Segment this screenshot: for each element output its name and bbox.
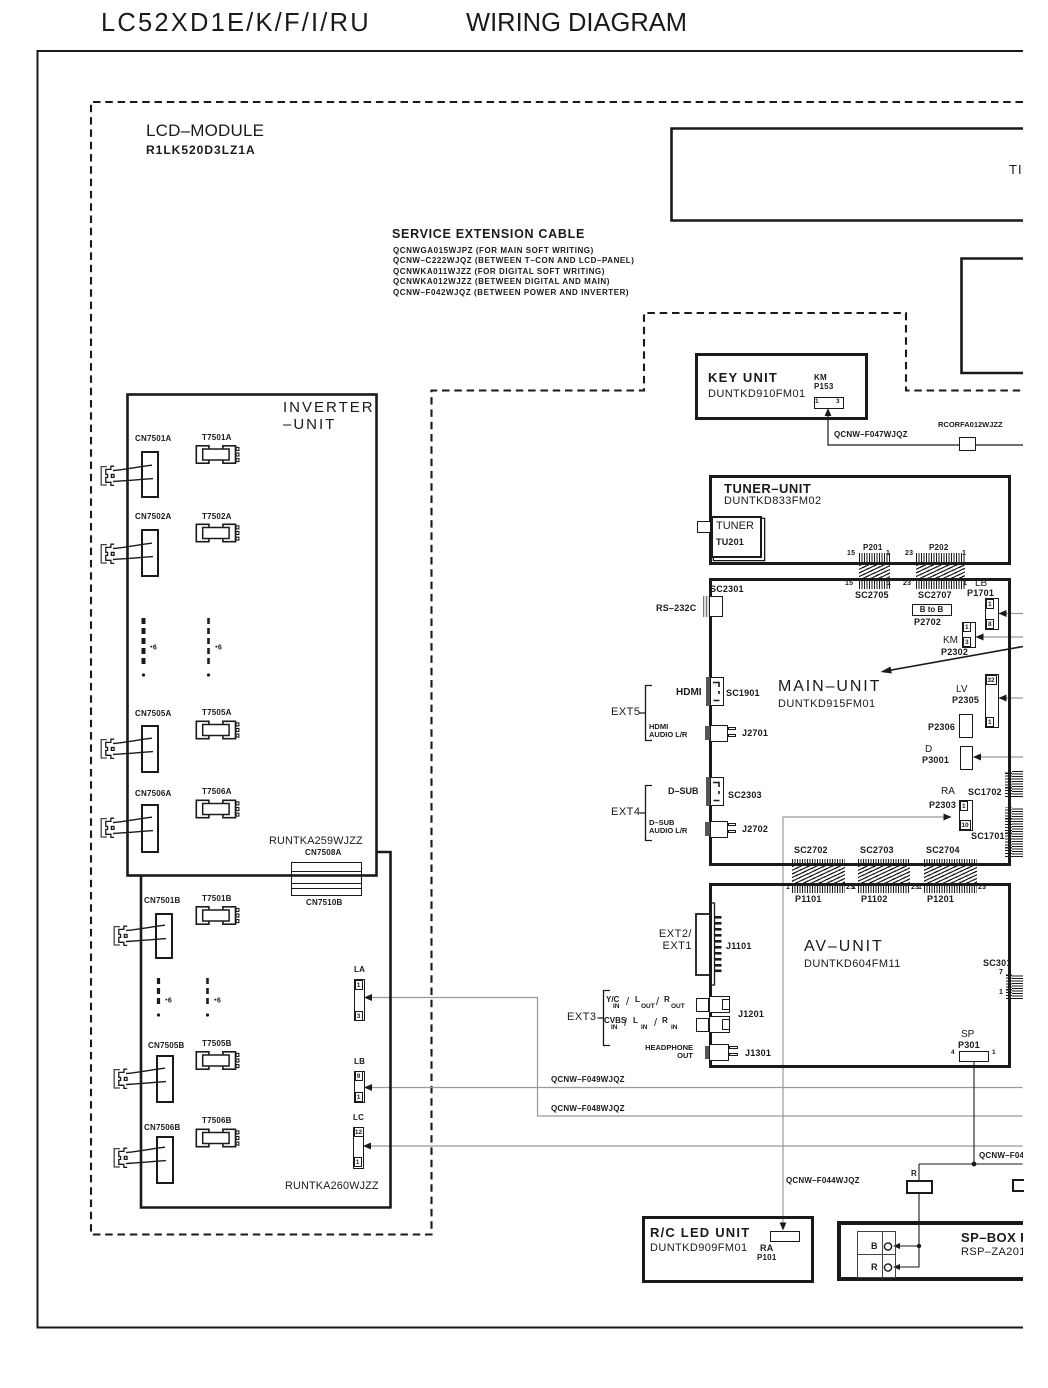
- service extension cable list: [393, 246, 634, 298]
- connector CN7508A/CN7510B stack: [291, 862, 362, 896]
- wires plug CN7506B: [126, 1147, 166, 1163]
- connector KM P2302: [943, 635, 958, 646]
- service extension cable heading: [392, 227, 585, 241]
- continuation dashes A col1: [142, 618, 146, 668]
- continuation count A1: [150, 644, 157, 652]
- inverter A board: [128, 395, 377, 876]
- wire to LV P2305: [999, 697, 1023, 699]
- wire junction to R connector: [918, 1164, 920, 1180]
- AV-UNIT box: [709, 883, 1011, 1068]
- ribbon SC2704/P1201: [924, 859, 977, 866]
- connector SC2301: [703, 596, 709, 617]
- T-CON label (clipped): [1009, 162, 1023, 177]
- connector RCORFA012WJZZ: [959, 437, 976, 451]
- wire to KM P2302: [976, 636, 1023, 638]
- T-CON box (clipped right): [672, 129, 1024, 221]
- connector T7502A: [196, 524, 239, 541]
- connector T7501B: [196, 907, 239, 924]
- connector T7506B: [196, 1129, 239, 1146]
- label HEADPHONE OUT: [640, 1044, 693, 1060]
- plug CN7506B: [114, 1148, 128, 1167]
- plug CN7501A: [101, 466, 115, 485]
- connector CN7505A label: [135, 709, 172, 718]
- connector KM P153 label: [814, 373, 833, 391]
- tuner TU201 box: [711, 516, 762, 558]
- title model number: [101, 9, 371, 38]
- connector CN7501B: [155, 913, 173, 960]
- arrow to MAIN-UNIT from power: [883, 647, 1023, 672]
- connector J1201 RCA 2: [696, 1018, 709, 1032]
- connector L (clipped): [1012, 1179, 1024, 1192]
- plug CN7505B: [114, 1069, 128, 1088]
- wires plug CN7505A: [113, 738, 153, 754]
- connector T7501A: [196, 446, 239, 463]
- wire from LC: [366, 1145, 1023, 1147]
- ribbon SC1702: [968, 787, 1002, 797]
- connector T7502A label: [202, 512, 232, 521]
- ribbon P201/SC2705: [859, 553, 890, 565]
- wire SP P301 down: [973, 1061, 975, 1164]
- connector CN7501A: [141, 451, 159, 498]
- connector T7505A label: [202, 708, 232, 717]
- connector CN7505B label: [148, 1041, 185, 1050]
- label J1101: [726, 941, 752, 951]
- connector R: [911, 1169, 917, 1178]
- connector CN7505A: [141, 725, 159, 773]
- label EXT5: [611, 706, 641, 718]
- tuner TU201 antenna stub: [697, 521, 711, 533]
- R/C LED UNIT label: [650, 1225, 750, 1240]
- wire RA P2303 to R/C LED unit: [783, 817, 951, 1228]
- MAIN-UNIT part number: [778, 698, 876, 710]
- connector J1201 RCA 1: [696, 998, 709, 1012]
- ribbon SC2703/P1102: [858, 859, 910, 866]
- wire to LB P1701: [999, 613, 1023, 615]
- junction dot: [972, 1162, 977, 1167]
- connector CN7506A label: [135, 789, 172, 798]
- connector J2701: [705, 726, 710, 740]
- arrowhead LA: [364, 994, 372, 1001]
- label QCNW-F049WJQZ: [551, 1075, 625, 1084]
- connector T7501B label: [202, 894, 232, 903]
- KEY UNIT part number: [708, 388, 806, 400]
- label QCNW-F044WJQZ: [786, 1176, 860, 1185]
- connector CN7505B: [156, 1055, 174, 1103]
- label RUNTKA259WJZZ: [269, 835, 363, 847]
- B to B box: [912, 604, 952, 616]
- wire QCNW-F048WJQZ (from LA): [366, 998, 1023, 1117]
- wires plug CN7501B: [126, 925, 166, 941]
- SP-BOX box: [837, 1221, 1023, 1281]
- label EXT2/EXT1: [645, 928, 692, 952]
- connector CN7502A label: [135, 512, 172, 521]
- wires plug CN7501A: [113, 465, 153, 481]
- connector T7506B label: [202, 1116, 232, 1125]
- connector LA: [354, 965, 365, 974]
- connector CN7506B: [156, 1136, 174, 1185]
- MAIN-UNIT label: [778, 678, 881, 696]
- connector J2702: [705, 822, 710, 836]
- arrowhead LB: [364, 1084, 372, 1091]
- ribbon SC2702/P1101: [792, 859, 845, 866]
- connector SP P301: [961, 1029, 974, 1040]
- plug CN7506A: [101, 818, 115, 837]
- wire to D P3001: [974, 756, 1024, 758]
- connector SC1901 HDMI: [706, 677, 710, 706]
- connector D P3001: [925, 744, 932, 755]
- wire R connector to speaker terminals: [897, 1194, 919, 1267]
- plug CN7501B: [114, 926, 128, 945]
- wire QCNW-F049WJQZ (from LB): [366, 1087, 1023, 1089]
- wire QCNW-F047WJQZ from KEY UNIT: [828, 411, 1023, 445]
- TUNER-UNIT label: [724, 481, 811, 496]
- wires plug CN7506A: [113, 817, 153, 833]
- EXT4 bracket: [640, 786, 653, 841]
- connector CN7502A: [141, 529, 159, 577]
- AV-UNIT part number: [804, 958, 901, 970]
- INVERTER-UNIT label: [283, 399, 375, 433]
- TUNER-UNIT part number: [724, 495, 822, 507]
- SP-BOX label: [961, 1230, 1023, 1245]
- connector CN7501B label: [144, 896, 181, 905]
- AV-UNIT label: [804, 938, 884, 956]
- R/C LED UNIT part number: [650, 1242, 748, 1254]
- wires plug CN7505B: [126, 1068, 166, 1084]
- connector CN7508A label: [305, 848, 342, 857]
- LCD-MODULE part number: [146, 143, 256, 157]
- label QCNW-F043WJQZ (clipped): [979, 1151, 1023, 1160]
- ribbon SC301: [983, 958, 1012, 968]
- MAIN-UNIT box: [709, 578, 1011, 866]
- connector CN7510B label: [306, 898, 343, 907]
- title wiring diagram: [466, 9, 687, 38]
- connector CN7506B label: [144, 1123, 181, 1132]
- continuation count B2: [214, 997, 221, 1005]
- power unit box (clipped right): [962, 259, 1024, 374]
- label Y/C IN L OUT R OUT: [606, 995, 621, 1004]
- ribbon P202/SC2707: [916, 553, 965, 565]
- KEY UNIT box: [695, 353, 868, 420]
- continuation dashes B col2: [206, 978, 209, 1008]
- connector T7501A label: [202, 433, 232, 442]
- connector T7506A: [196, 800, 239, 817]
- label HDMI AUDIO L/R: [649, 723, 687, 738]
- LCD-MODULE dashed boundary: [91, 102, 1023, 1235]
- wire QCNW-F04x horizontal: [919, 1163, 1023, 1165]
- connector KM P153: [814, 397, 844, 409]
- label RUNTKA260WJZZ: [285, 1180, 379, 1192]
- junction dot at speaker wire: [917, 1244, 921, 1248]
- connector T7505B: [196, 1052, 239, 1069]
- continuation dashes B col1: [157, 978, 160, 1008]
- plug CN7505A: [101, 739, 115, 758]
- connector T7505A: [196, 721, 239, 738]
- connector T7506A label: [202, 787, 232, 796]
- connector SC2303 D-SUB: [706, 777, 710, 806]
- TUNER-UNIT box: [709, 475, 1011, 565]
- connector RA P101: [770, 1231, 800, 1242]
- connector LC: [353, 1113, 364, 1122]
- ribbon SC1701: [1005, 807, 1012, 857]
- speaker terminal R: [871, 1262, 878, 1272]
- SP-BOX part number: [961, 1246, 1023, 1258]
- connector T7505B label: [202, 1039, 232, 1048]
- label RCORFA012WJZZ: [938, 420, 1003, 429]
- connector CN7501A label: [135, 434, 172, 443]
- label EXT3: [567, 1011, 597, 1023]
- label QCNW-F048WJQZ: [551, 1104, 625, 1113]
- label D-SUB AUDIO L/R: [649, 819, 687, 834]
- continuation dashes A col2: [207, 618, 210, 668]
- connector LB P1701: [975, 578, 987, 589]
- EXT5 bracket: [640, 686, 653, 741]
- speaker terminal B: [871, 1241, 878, 1251]
- label QCNW-F047WJQZ: [834, 430, 908, 439]
- EXT3 bracket: [598, 991, 611, 1046]
- inverter A to B link wire: [377, 852, 391, 1208]
- SCART J1101 socket: [696, 914, 710, 975]
- continuation count B1: [165, 997, 172, 1005]
- plug CN7502A: [101, 544, 115, 563]
- label CVBS L IN R IN: [604, 1016, 626, 1025]
- wires plug CN7502A: [113, 543, 153, 559]
- KEY UNIT label: [708, 370, 778, 385]
- label EXT4: [611, 806, 641, 818]
- connector LV P2305: [956, 684, 968, 695]
- inverter B board: [141, 877, 392, 1208]
- connector J1301: [705, 1046, 710, 1059]
- connector P2306: [928, 722, 955, 732]
- arrowhead into B terminal: [893, 1243, 900, 1249]
- speaker terminal grid: [857, 1231, 897, 1278]
- connector RA P2303: [941, 786, 955, 797]
- R/C LED UNIT box: [642, 1216, 814, 1283]
- continuation count A2: [215, 644, 222, 652]
- connector CN7506A: [141, 804, 159, 853]
- connector LB: [354, 1057, 365, 1066]
- LCD-MODULE label: [146, 121, 264, 141]
- arrowhead LC: [363, 1143, 371, 1150]
- label P2702: [914, 617, 941, 627]
- arrowhead into R terminal: [893, 1264, 900, 1270]
